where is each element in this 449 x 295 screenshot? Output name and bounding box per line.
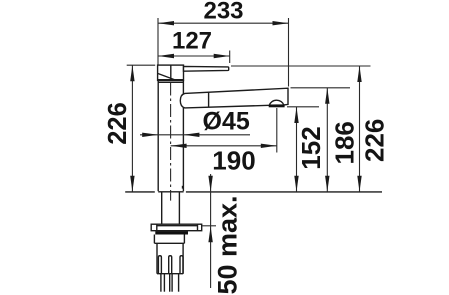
dimension Ø45 [140,108,250,137]
detail body bottom mark [182,186,184,189]
shank below counter [162,192,180,225]
nut slot 2 [169,256,172,274]
dimension 226 left [104,65,155,192]
dimension 152 [287,107,326,192]
svg-text:233: 233 [203,0,243,25]
svg-text:Ø45: Ø45 [203,108,250,136]
aerator dome [269,100,284,105]
dimension 50 max [202,174,243,295]
lever handle block [158,65,184,80]
svg-text:50 max.: 50 max. [213,195,243,294]
wire countertop baseline right segment [186,191,382,193]
nut slot 3 [180,256,183,274]
mounting flange [151,224,202,231]
svg-text:190: 190 [212,145,255,175]
dimension 226 right [231,66,390,192]
aerator base band [269,105,285,107]
svg-text:226: 226 [360,119,390,162]
dimension 127 [158,27,230,63]
wire countertop baseline left segment [125,191,155,193]
dimension 190 [171,108,277,175]
spout seam [208,92,210,107]
mounting nut [157,243,183,273]
nut slot 1 [158,256,161,274]
hose lines [161,274,179,292]
svg-text:127: 127 [172,27,212,54]
collar [154,235,184,244]
node center line [170,83,172,201]
svg-text:152: 152 [296,126,326,169]
svg-text:226: 226 [104,102,132,145]
lever arm [184,66,229,71]
dimension 186 [291,88,360,192]
spout [180,88,288,108]
faucet body column [158,80,183,191]
wire body bottom edge [158,191,183,193]
seal band [155,231,188,234]
svg-text:186: 186 [330,121,360,164]
dimension 233 [158,0,289,87]
